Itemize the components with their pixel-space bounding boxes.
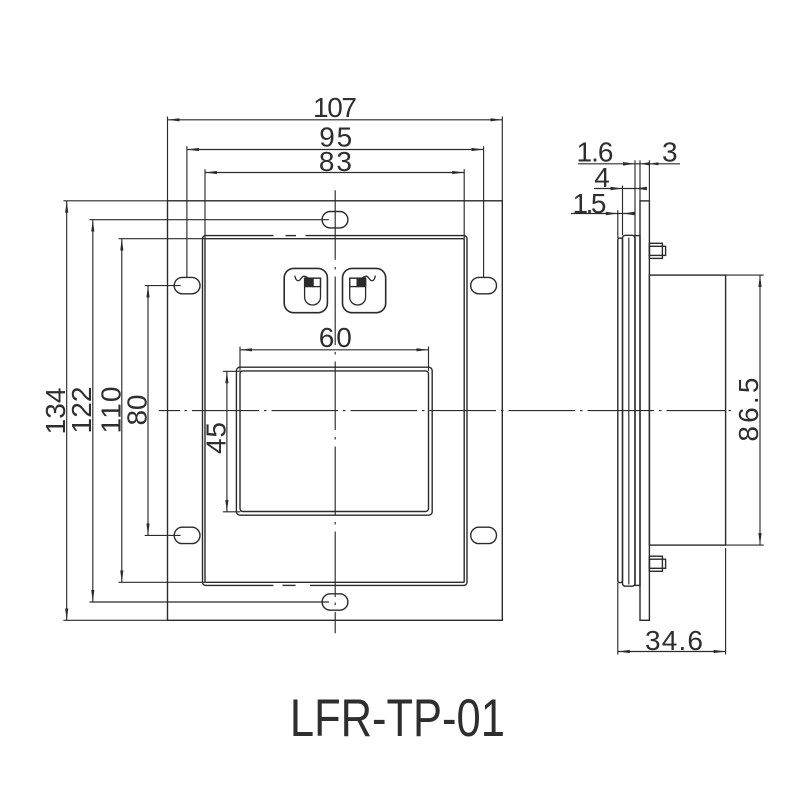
dimension 80: [147, 286, 149, 536]
horizontal centerline: [159, 410, 731, 412]
SIDE VIEW: [618, 201, 726, 620]
dimension 134: [66, 201, 68, 621]
dimension 45: [226, 371, 228, 512]
extension lines left: [63, 201, 329, 621]
svg-text:107: 107: [313, 92, 357, 123]
svg-text:60: 60: [319, 322, 352, 353]
svg-text:LFR-TP-01: LFR-TP-01: [290, 689, 505, 748]
touchpad bezel outer rect: [236, 367, 432, 515]
dimension 1.5: [571, 213, 635, 215]
svg-text:122: 122: [66, 387, 97, 434]
left mouse button key: [284, 268, 327, 312]
module body: [623, 235, 636, 586]
rear plate 1.5: [618, 238, 623, 582]
extension lines top: [168, 117, 503, 512]
dimension 107: [168, 119, 503, 121]
dimension 60: [240, 349, 429, 351]
svg-text:45: 45: [200, 422, 231, 454]
rear box: [649, 275, 725, 545]
face plate 1.6: [635, 236, 640, 586]
oval slot top-right: [471, 277, 497, 293]
outer flange rect R1 107x134: [168, 201, 503, 621]
oval slot top-left: [174, 277, 200, 293]
dimension 83: [205, 172, 464, 174]
dimension 4: [594, 188, 641, 190]
svg-text:3: 3: [662, 136, 678, 167]
flange plate 3: [640, 201, 649, 620]
dimension 1.6 / 3 line: [578, 163, 680, 165]
dimension 34.6: [618, 651, 726, 653]
dimension 95: [187, 149, 484, 151]
bezel inner face rect 83x110: [205, 239, 464, 583]
module internal line: [628, 238, 630, 585]
oval slot top-center: [322, 212, 348, 228]
vertical centerline: [334, 190, 336, 633]
white-out gaps on bezel outer top edge: [274, 234, 306, 237]
right key mouse icon: [350, 276, 376, 305]
right mouse button key: [343, 268, 386, 312]
stud bolt top: [649, 243, 662, 258]
dimension 86.5: [759, 275, 761, 545]
svg-text:83: 83: [319, 146, 352, 177]
dash segment on bezel outer bottom edge: [283, 584, 296, 586]
svg-text:86.5: 86.5: [733, 378, 764, 442]
dimension 122: [92, 220, 94, 602]
touchpad surface rect 60x45: [240, 371, 429, 512]
svg-text:1.5: 1.5: [573, 188, 607, 219]
left key mouse icon: [295, 276, 321, 305]
oval slot bottom-left: [174, 527, 200, 543]
svg-text:80: 80: [121, 395, 152, 426]
side view extension lines: [618, 160, 764, 654]
oval slot bottom-center: [322, 594, 348, 610]
dimension 110: [121, 239, 123, 583]
stud bolt bottom: [649, 556, 662, 571]
white-out gaps on bezel outer bottom edge: [273, 584, 310, 587]
bezel outer outline R2: [203, 236, 468, 586]
dash segment on bezel outer top edge: [286, 235, 297, 237]
oval slot bottom-right: [471, 527, 497, 543]
svg-text:34.6: 34.6: [645, 625, 703, 656]
